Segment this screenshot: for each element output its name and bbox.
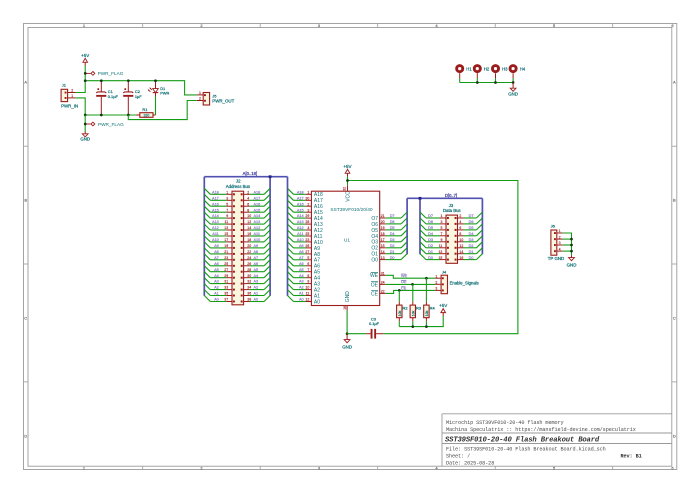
resistor R1: [136, 107, 156, 118]
power flag PWR_FLAG2: [85, 122, 124, 127]
node A2 (J2 right): [250, 284, 271, 290]
wire D0 to J3 left: [420, 254, 440, 260]
svg-text:22: 22: [381, 290, 385, 294]
svg-text:D6: D6: [390, 220, 395, 224]
svg-text:GND: GND: [342, 345, 352, 350]
svg-text:A9: A9: [254, 244, 259, 248]
node A0 (J2 right): [250, 296, 271, 302]
node A2 (J2 left): [204, 284, 226, 290]
U1 pin 29 A14: [305, 214, 323, 222]
svg-text:5: 5: [307, 256, 309, 260]
svg-text:A10: A10: [254, 238, 261, 242]
capacitor C3 0.1uF: [366, 316, 383, 338]
svg-text:R3: R3: [416, 305, 422, 310]
svg-text:PWR: PWR: [160, 91, 169, 96]
svg-text:CE: CE: [371, 291, 379, 297]
svg-text:3: 3: [440, 220, 442, 224]
connector J4: [435, 269, 479, 293]
svg-text:A6: A6: [299, 262, 304, 266]
svg-text:A1: A1: [299, 292, 304, 296]
svg-text:GND: GND: [508, 91, 518, 96]
svg-text:D3: D3: [390, 238, 395, 242]
junction: [100, 79, 103, 116]
svg-text:4: 4: [459, 220, 461, 224]
wire A16 to U1: [288, 200, 306, 206]
svg-text:1µF: 1µF: [135, 94, 142, 99]
svg-text:GND: GND: [80, 137, 90, 142]
node A6 (J2 left): [204, 260, 226, 266]
svg-text:A14: A14: [254, 214, 261, 218]
wire: [84, 115, 86, 132]
node A16 (J2 right): [250, 200, 271, 206]
node A4 (J2 right): [250, 272, 271, 278]
svg-text:CE: CE: [401, 287, 407, 291]
node A12 (J2 right): [250, 224, 271, 230]
node A3 (J2 right): [250, 278, 271, 284]
wire: [512, 78, 514, 83]
svg-text:D5: D5: [428, 226, 433, 230]
svg-text:A16: A16: [254, 202, 261, 206]
wire R2 top: [398, 290, 400, 301]
U1 pin 14 O1: [371, 250, 385, 258]
U1 pin 9 A3: [305, 280, 320, 288]
wire A9 to U1: [288, 242, 306, 248]
wire R3 top: [412, 284, 414, 301]
wire D7 from J3 right: [464, 212, 483, 218]
node A7 (J2 right): [250, 254, 271, 260]
svg-text:2: 2: [199, 97, 201, 101]
svg-text:3: 3: [226, 196, 228, 200]
svg-text:SST39SF010-20-40 Flash Breakou: SST39SF010-20-40 Flash Breakout Board: [445, 436, 600, 444]
svg-text:D2: D2: [428, 244, 433, 248]
U1 pin 30 A17: [305, 196, 323, 204]
wire D5 from U1: [386, 224, 407, 230]
svg-text:A11: A11: [297, 232, 303, 236]
svg-text:H1: H1: [466, 67, 472, 72]
svg-text:2: 2: [559, 235, 561, 239]
svg-text:A3: A3: [299, 280, 304, 284]
U1 pin 22 CE: [371, 290, 386, 298]
node A15 (J2 left): [204, 206, 226, 212]
junction: [84, 72, 87, 75]
svg-text:4: 4: [307, 226, 309, 230]
svg-text:A2: A2: [299, 286, 304, 290]
svg-text:14: 14: [381, 250, 385, 254]
svg-text:A4: A4: [254, 274, 259, 278]
U1 pin 13 O0: [371, 256, 385, 264]
svg-text:A15: A15: [254, 208, 261, 212]
svg-text:A2: A2: [214, 286, 219, 290]
node A18 (J2 left): [204, 188, 226, 194]
svg-text:23: 23: [305, 238, 309, 242]
wire: [495, 78, 497, 83]
wire D2 from J3 right: [464, 242, 483, 248]
svg-text:5: 5: [226, 202, 228, 206]
wire VCC: [347, 177, 349, 186]
node A10 (J2 left): [204, 236, 226, 242]
svg-text:GND: GND: [567, 262, 577, 267]
svg-text:11: 11: [306, 292, 310, 296]
junction: [127, 79, 130, 116]
wire D7 to J3 left: [420, 212, 440, 218]
node A11 (J2 left): [204, 230, 226, 236]
svg-text:A1: A1: [214, 292, 219, 296]
svg-text:A8: A8: [299, 250, 304, 254]
junction: [476, 81, 514, 84]
wire A4 to U1: [288, 272, 306, 278]
U1 pin 17 O3: [371, 238, 385, 246]
svg-text:U1: U1: [344, 237, 350, 243]
wire D1 to J3 left: [420, 248, 440, 254]
svg-text:R4: R4: [430, 305, 436, 310]
svg-text:O0: O0: [371, 258, 378, 264]
svg-text:D7: D7: [469, 214, 474, 218]
resistor R2 10k: [397, 302, 409, 322]
svg-text:10: 10: [305, 286, 309, 290]
wire D3 to J3 left: [420, 236, 440, 242]
svg-text:Sheet: /: Sheet: /: [446, 453, 470, 459]
svg-text:8: 8: [459, 232, 461, 236]
wire D3 from U1: [386, 236, 407, 242]
svg-text:24: 24: [381, 281, 385, 285]
svg-text:30: 30: [305, 196, 309, 200]
svg-text:10k: 10k: [398, 310, 402, 316]
svg-text:10: 10: [459, 238, 463, 242]
node A9 (J2 left): [204, 242, 226, 248]
svg-text:D7: D7: [390, 214, 395, 218]
wire: [563, 233, 572, 255]
svg-text:D: D: [24, 433, 27, 438]
svg-text:9: 9: [307, 280, 309, 284]
svg-text:A5: A5: [254, 268, 259, 272]
svg-text:A: A: [673, 80, 676, 85]
node A10 (J2 right): [250, 236, 271, 242]
wire: [76, 98, 86, 115]
node A4 (J2 left): [204, 272, 226, 278]
wire D5 to J3 left: [420, 224, 440, 230]
svg-text:File: SST39SF010-20-40 Flash B: File: SST39SF010-20-40 Flash Breakout Bo…: [446, 446, 606, 452]
svg-text:7: 7: [307, 268, 309, 272]
wire D1 from U1: [386, 248, 407, 254]
svg-text:2: 2: [459, 214, 461, 218]
svg-text:R2: R2: [403, 305, 409, 310]
svg-text:8: 8: [307, 274, 309, 278]
svg-text:A7: A7: [254, 256, 259, 260]
bus junction: [269, 175, 272, 178]
power +5V symbol: [81, 53, 89, 66]
wire: [459, 78, 461, 83]
junction: [154, 79, 157, 82]
svg-text:3: 3: [435, 287, 437, 291]
wire D1 from J3 right: [464, 248, 483, 254]
node A18 (J2 right): [250, 188, 271, 194]
wire D3 from J3 right: [464, 236, 483, 242]
wire D2 to J3 left: [420, 242, 440, 248]
wire A1 to U1: [288, 290, 306, 296]
svg-text:15: 15: [381, 244, 385, 248]
wire A5 to U1: [288, 266, 306, 272]
svg-text:7: 7: [226, 208, 228, 212]
svg-text:12: 12: [459, 244, 463, 248]
wire A11 to U1: [288, 230, 306, 236]
wire R4 top: [425, 278, 427, 302]
wire D6 to J3 left: [420, 218, 440, 224]
svg-text:A0: A0: [299, 298, 304, 302]
svg-text:1: 1: [435, 274, 437, 278]
U1 pin 6 A6: [305, 262, 320, 270]
svg-text:Microchip SST39VF010-20-40 fla: Microchip SST39VF010-20-40 flash memory: [446, 420, 564, 426]
node A13 (J2 left): [204, 218, 226, 224]
wire +5V rail: [85, 81, 197, 95]
junction: [398, 277, 428, 292]
svg-text:A3: A3: [254, 280, 259, 284]
wire GND rail: [85, 114, 136, 116]
svg-text:+5V: +5V: [439, 303, 447, 308]
power +5V symbol: [439, 303, 447, 316]
svg-text:D0: D0: [469, 256, 474, 260]
U1 pin 31 WE: [370, 272, 386, 280]
svg-text:18: 18: [381, 232, 385, 236]
svg-text:1: 1: [307, 190, 309, 194]
svg-text:9: 9: [440, 238, 442, 242]
svg-text:Rev: B1: Rev: B1: [621, 454, 642, 460]
node A6 (J2 right): [250, 260, 271, 266]
svg-text:D4: D4: [469, 232, 474, 236]
svg-text:D5: D5: [390, 226, 395, 230]
svg-text:A9: A9: [214, 244, 219, 248]
svg-text:330: 330: [143, 114, 149, 118]
svg-text:A0: A0: [214, 298, 219, 302]
svg-text:D1: D1: [428, 250, 433, 254]
node A1 (J2 right): [250, 290, 271, 296]
svg-text:A17: A17: [297, 196, 304, 200]
node A9 (J2 right): [250, 242, 271, 248]
node A8 (J2 right): [250, 248, 271, 254]
svg-text:A6: A6: [254, 262, 259, 266]
svg-text:A4: A4: [214, 274, 219, 278]
junction: [570, 238, 573, 253]
wire: [460, 82, 513, 84]
capacitor C2: [123, 81, 142, 115]
svg-text:A12: A12: [297, 226, 304, 230]
svg-text:A7: A7: [299, 256, 304, 260]
svg-text:A18: A18: [297, 190, 304, 194]
svg-text:D2: D2: [390, 244, 395, 248]
U1 pin 8 A4: [305, 274, 320, 282]
svg-text:Address Bus: Address Bus: [226, 184, 250, 189]
svg-text:Date: 2025-08-28: Date: 2025-08-28: [446, 460, 494, 466]
svg-text:19: 19: [381, 226, 385, 230]
svg-text:A6: A6: [214, 262, 219, 266]
svg-text:12: 12: [305, 298, 309, 302]
junction: [84, 79, 87, 82]
LED D1: [148, 81, 169, 97]
svg-text:D0: D0: [428, 256, 433, 260]
svg-text:C: C: [673, 316, 676, 321]
svg-text:6: 6: [459, 226, 461, 230]
wire WE: [386, 274, 435, 278]
svg-text:Enable_Signals: Enable_Signals: [450, 280, 479, 285]
svg-text:11: 11: [439, 244, 443, 248]
svg-text:9: 9: [226, 214, 228, 218]
svg-text:A12: A12: [212, 226, 219, 230]
svg-text:D6: D6: [428, 220, 433, 224]
wire A14 to U1: [288, 212, 306, 218]
U1 pin 2 A16: [305, 202, 323, 210]
svg-text:16: 16: [459, 256, 463, 260]
svg-text:17: 17: [381, 238, 385, 242]
svg-text:PWR_FLAG: PWR_FLAG: [98, 71, 124, 76]
wire CE: [386, 287, 435, 294]
svg-text:Data Bus: Data Bus: [443, 208, 461, 213]
resistor R3 10k: [410, 302, 422, 322]
mounting hole H1: [457, 66, 473, 78]
wire D7 from U1: [386, 212, 407, 218]
bus A[0..18]: [204, 171, 287, 296]
svg-text:A1: A1: [254, 292, 259, 296]
U1 pin 23 A10: [305, 238, 323, 246]
U1 pin 3 A15: [305, 208, 323, 216]
svg-text:A9: A9: [299, 244, 304, 248]
wire D5 from J3 right: [464, 224, 483, 230]
U1 pin 1 A18: [305, 190, 323, 198]
svg-text:10k: 10k: [425, 310, 429, 316]
svg-text:A8: A8: [214, 250, 219, 254]
svg-text:4: 4: [559, 247, 561, 251]
svg-text:13: 13: [381, 256, 385, 260]
wire: [155, 96, 157, 115]
svg-text:+5V: +5V: [343, 164, 351, 169]
U1 pin 25 A11: [305, 232, 322, 240]
svg-text:8: 8: [247, 208, 249, 212]
U1 pin 7 A5: [305, 268, 320, 276]
bus junction: [419, 197, 422, 200]
svg-text:A12: A12: [254, 226, 261, 230]
svg-text:WE: WE: [401, 274, 408, 278]
svg-text:3: 3: [307, 208, 309, 212]
U1 pin 18 O4: [371, 232, 385, 240]
svg-text:SST39VF010/20/40: SST39VF010/20/40: [330, 207, 372, 213]
U1 pin 4 A12: [305, 226, 323, 234]
U1 pin 5 A7: [305, 256, 320, 264]
capacitor C1: [96, 81, 118, 115]
svg-text:B: B: [24, 198, 27, 203]
connector J3: [438, 203, 463, 263]
wire D2 from U1: [386, 242, 407, 248]
svg-text:R1: R1: [142, 107, 147, 112]
svg-text:0.1µF: 0.1µF: [108, 94, 119, 99]
svg-text:A0: A0: [254, 298, 259, 302]
svg-text:GND: GND: [345, 291, 351, 303]
svg-text:1: 1: [440, 214, 442, 218]
svg-text:31: 31: [381, 272, 385, 276]
wire A8 to U1: [288, 248, 306, 254]
svg-text:D2: D2: [469, 244, 474, 248]
wire OE: [386, 280, 435, 284]
svg-text:D1: D1: [469, 250, 474, 254]
svg-text:A18: A18: [254, 190, 261, 194]
svg-text:A0: A0: [314, 299, 320, 305]
svg-text:VCC: VCC: [346, 191, 352, 202]
ground: [567, 255, 577, 267]
wire +5V loop: [348, 181, 518, 334]
junction: [346, 332, 349, 335]
node A16 (J2 left): [204, 200, 226, 206]
wire D0 from U1: [386, 254, 407, 260]
svg-text:D6: D6: [469, 220, 474, 224]
svg-text:A13: A13: [297, 220, 304, 224]
svg-text:A11: A11: [212, 232, 218, 236]
wire D4 to J3 left: [420, 230, 440, 236]
U1 pin 27 A8: [305, 250, 320, 258]
svg-text:WE: WE: [370, 273, 379, 279]
node A3 (J2 left): [204, 278, 226, 284]
node A5 (J2 left): [204, 266, 226, 272]
wire A18 to U1: [288, 188, 306, 194]
node A1 (J2 left): [204, 290, 226, 296]
svg-text:A5: A5: [299, 268, 304, 272]
wire A12 to U1: [288, 224, 306, 230]
bus D[0..7]: [407, 193, 482, 254]
junction: [84, 114, 87, 117]
svg-text:D4: D4: [428, 232, 433, 236]
svg-text:A8: A8: [254, 250, 259, 254]
U1 pin 24 OE: [371, 281, 386, 289]
wire: [76, 66, 86, 93]
junction: [84, 123, 87, 126]
wire A15 to U1: [288, 206, 306, 212]
svg-text:5: 5: [440, 226, 442, 230]
U1 pin 19 O5: [371, 226, 385, 234]
node A7 (J2 left): [204, 254, 226, 260]
svg-text:26: 26: [305, 244, 309, 248]
svg-text:28: 28: [305, 220, 309, 224]
svg-text:6: 6: [247, 202, 249, 206]
svg-text:PWR_FLAG: PWR_FLAG: [98, 122, 124, 127]
svg-text:D3: D3: [469, 238, 474, 242]
svg-text:2: 2: [435, 280, 437, 284]
svg-text:A10: A10: [297, 238, 304, 242]
node A0 (J2 left): [204, 296, 226, 302]
svg-text:2: 2: [247, 190, 249, 194]
svg-text:6: 6: [307, 262, 309, 266]
junction: [411, 325, 427, 328]
wire R2 bottom: [398, 321, 400, 326]
svg-text:D3: D3: [428, 238, 433, 242]
svg-text:C: C: [24, 316, 27, 321]
svg-text:21: 21: [381, 214, 385, 218]
svg-text:J2: J2: [236, 179, 241, 184]
U1 pin 26 A9: [305, 244, 320, 252]
wire A10 to U1: [288, 236, 306, 242]
svg-text:D7: D7: [428, 214, 433, 218]
svg-text:A16: A16: [297, 202, 304, 206]
svg-text:D: D: [673, 433, 676, 438]
svg-text:Machina Speculatrix :: https:/: Machina Speculatrix :: https://mansfield…: [446, 427, 636, 433]
svg-text:A[0..18]: A[0..18]: [243, 171, 257, 176]
node A11 (J2 right): [250, 230, 271, 236]
svg-text:1: 1: [559, 229, 561, 233]
wire A6 to U1: [288, 260, 306, 266]
wire R3 bottom: [412, 321, 414, 326]
svg-text:A13: A13: [212, 220, 219, 224]
svg-text:H4: H4: [520, 67, 526, 72]
wire A0 to U1: [288, 296, 306, 302]
wire D4 from J3 right: [464, 230, 483, 236]
svg-text:27: 27: [305, 250, 309, 254]
wire: [476, 78, 478, 83]
svg-text:A10: A10: [212, 238, 219, 242]
